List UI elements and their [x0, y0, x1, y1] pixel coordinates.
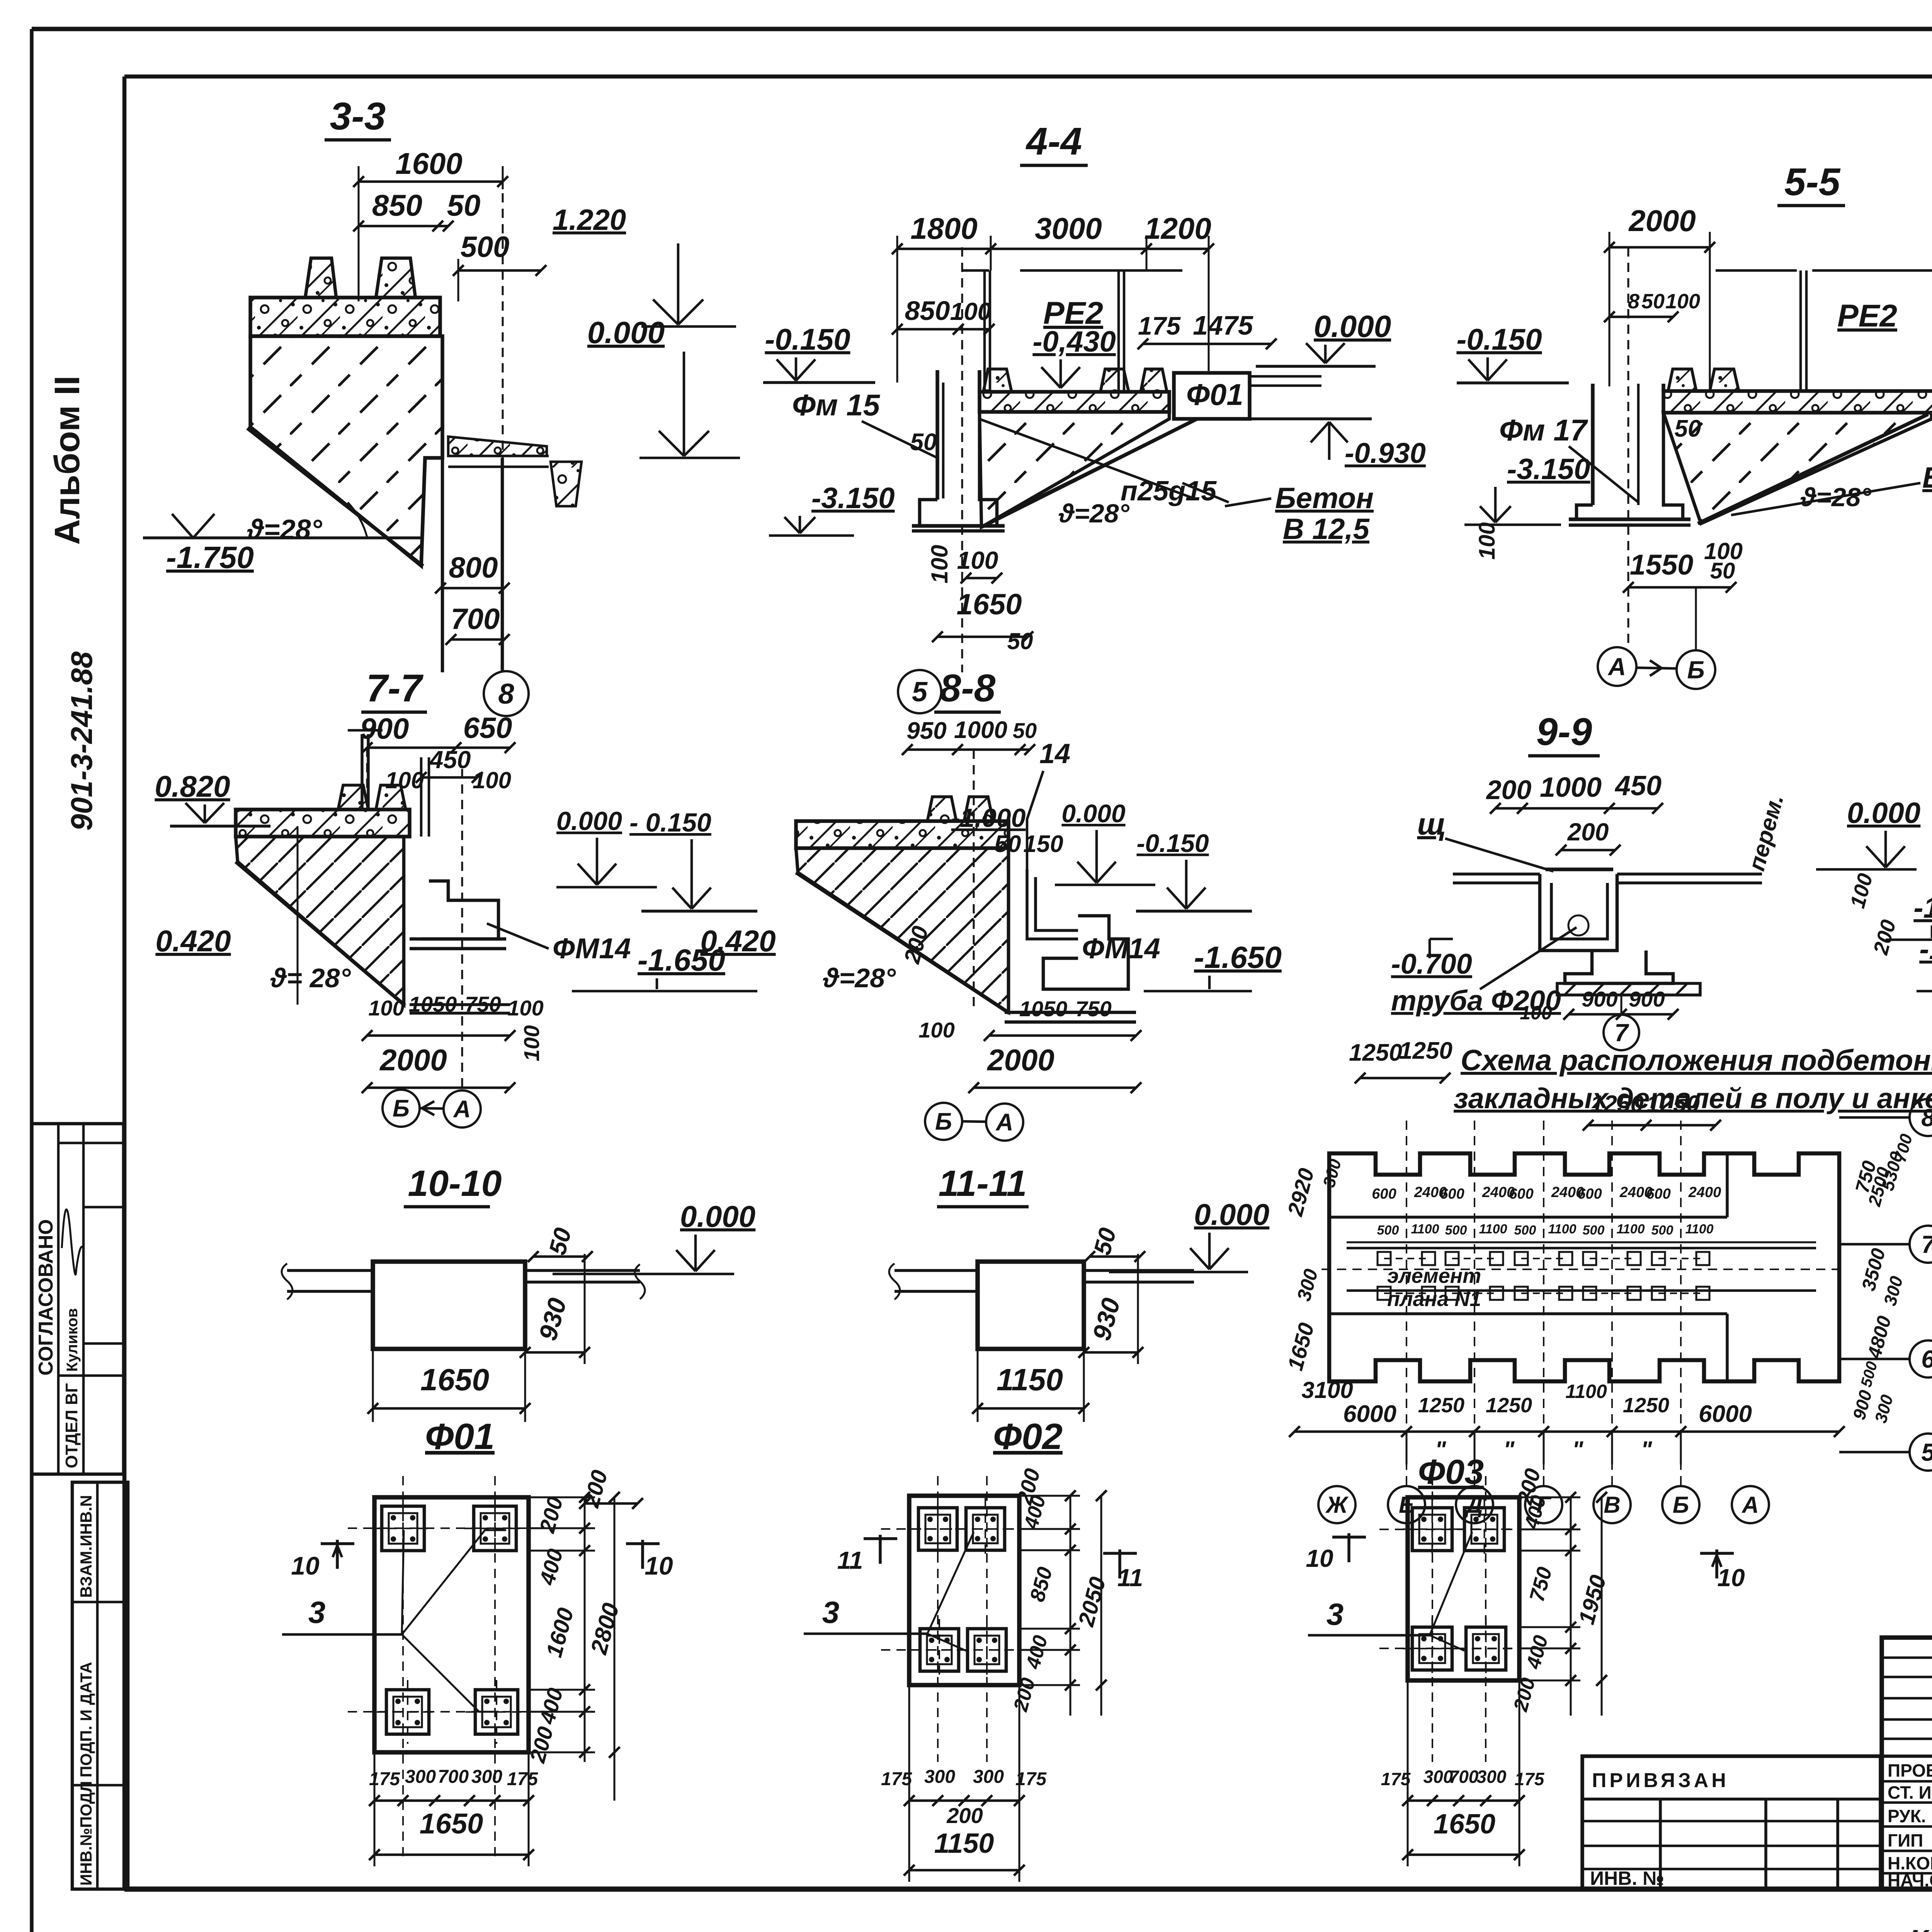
svg-text:200: 200 [1567, 818, 1609, 846]
svg-text:Ф03: Ф03 [1418, 1453, 1484, 1492]
svg-text:Ж: Ж [1325, 1492, 1349, 1518]
svg-text:600: 600 [1372, 1186, 1396, 1202]
svg-text:2400: 2400 [1688, 1184, 1721, 1201]
svg-text:ϑ=28°: ϑ=28° [823, 963, 896, 993]
svg-text:950: 950 [906, 718, 946, 744]
section 3-3 floor slab with curbs (concrete) [250, 298, 440, 336]
svg-text:10: 10 [1717, 1564, 1745, 1592]
svg-text:600: 600 [1509, 1186, 1533, 1202]
svg-text:150: 150 [1023, 831, 1063, 857]
svg-text:650: 650 [463, 712, 512, 745]
svg-text:50: 50 [1675, 415, 1701, 442]
svg-text:700: 700 [1449, 1767, 1479, 1787]
left margin table SOGLASOVANO [32, 1124, 124, 1474]
section 4-4 foundation mass hatched [980, 412, 1169, 527]
svg-text:ПРИВЯЗАН: ПРИВЯЗАН [1592, 1769, 1729, 1792]
svg-text:ИНВ.№ПОДЛ: ИНВ.№ПОДЛ [77, 1781, 95, 1886]
svg-text:2000: 2000 [986, 1043, 1054, 1077]
svg-text:Фм 17: Фм 17 [1499, 413, 1588, 447]
svg-text:Куликов: Куликов [64, 1308, 81, 1372]
left margin table inventory [72, 1482, 128, 1889]
foundation plan F01 outline [374, 1497, 529, 1752]
section 3-3 slope line [247, 428, 423, 566]
svg-text:Б: Б [393, 1095, 410, 1122]
svg-text:8: 8 [1628, 290, 1639, 313]
svg-text:1250: 1250 [1418, 1394, 1464, 1417]
svg-text:-0.700: -0.700 [1391, 948, 1472, 980]
svg-text:Ф02: Ф02 [993, 1416, 1063, 1457]
svg-text:0.000: 0.000 [1314, 309, 1391, 344]
svg-text:Альбом II: Альбом II [48, 376, 87, 545]
svg-text:175: 175 [1138, 311, 1181, 340]
svg-text:10: 10 [645, 1551, 673, 1580]
section 5-5 floor band concrete [1663, 391, 1932, 413]
svg-text:850: 850 [372, 188, 422, 222]
svg-text:900: 900 [1582, 987, 1617, 1011]
svg-text:1250: 1250 [1590, 1091, 1644, 1117]
svg-text:1100: 1100 [1479, 1222, 1507, 1236]
svg-text:0.000: 0.000 [587, 315, 665, 350]
section 5-5 left wall FM17 [1591, 384, 1595, 505]
svg-text:300: 300 [924, 1767, 955, 1787]
plan schema right axis circles [1839, 1116, 1909, 1119]
svg-text:100: 100 [1665, 290, 1700, 313]
svg-text:700: 700 [438, 1767, 469, 1787]
svg-text:СТ. ИНЖ.: СТ. ИНЖ. [1888, 1782, 1932, 1803]
svg-text:1000: 1000 [954, 717, 1007, 743]
F01 anchor squares [382, 1506, 424, 1551]
F03 anchor squares [1412, 1508, 1452, 1551]
svg-text:6000: 6000 [1699, 1401, 1752, 1427]
section 7-7 footing FM14 [421, 881, 498, 939]
section 3-3 foundation mass hatched [250, 336, 442, 566]
svg-text:Б: Б [1687, 656, 1704, 684]
section 8-8 footing FM14 [1043, 916, 1128, 989]
svg-text:1550: 1550 [1630, 549, 1694, 581]
svg-text:9-9: 9-9 [1536, 710, 1592, 753]
svg-text:1250: 1250 [1486, 1394, 1532, 1417]
svg-text:ϑ=28°: ϑ=28° [247, 514, 323, 545]
svg-text:175: 175 [881, 1769, 912, 1789]
svg-text:Фм 15: Фм 15 [792, 388, 881, 422]
svg-text:-0.150: -0.150 [1136, 829, 1209, 857]
plan schema anchor squares [1406, 1121, 1407, 1492]
svg-text:11-11: 11-11 [939, 1163, 1027, 1204]
section 3-3 axis [502, 193, 504, 670]
svg-text:6000: 6000 [1343, 1401, 1396, 1427]
svg-text:5-5: 5-5 [1784, 160, 1841, 204]
section 8-8 circles B A [925, 1103, 962, 1140]
svg-text:1200: 1200 [1144, 211, 1211, 245]
svg-text:300: 300 [405, 1767, 436, 1787]
title block signature table [1882, 1656, 1932, 1659]
svg-text:ϑ= 28°: ϑ= 28° [270, 963, 351, 993]
title block outline [1882, 1638, 1932, 1889]
svg-text:1.220: 1.220 [553, 204, 626, 236]
svg-text:500: 500 [1651, 1223, 1673, 1238]
svg-text:100: 100 [957, 546, 998, 574]
section 5-5 pipes [1799, 270, 1802, 391]
section 5-5 foundation mass hatched [1663, 413, 1932, 524]
svg-text:ВЗАМ.ИНВ.N: ВЗАМ.ИНВ.N [77, 1495, 95, 1598]
svg-text:элемент: элемент [1387, 1264, 1481, 1287]
svg-text:10: 10 [1306, 1544, 1333, 1572]
svg-text:8: 8 [1921, 1104, 1932, 1131]
svg-text:1600: 1600 [395, 146, 463, 180]
svg-text:В 12,5: В 12,5 [1283, 513, 1370, 546]
inner drawing frame [124, 75, 1932, 79]
section 8-8 axes [973, 750, 975, 1012]
section 10-10 drawing [373, 1262, 525, 1349]
svg-text:300: 300 [471, 1767, 502, 1787]
svg-text:450: 450 [1614, 770, 1662, 801]
svg-text:1000: 1000 [1540, 772, 1602, 803]
svg-text:3: 3 [308, 1595, 326, 1629]
privyazan block [1582, 1756, 1881, 1889]
svg-text:3100: 3100 [1301, 1377, 1353, 1403]
section 8-8 floor band concrete [796, 821, 1009, 848]
svg-text:50: 50 [447, 188, 481, 222]
section 5-5 axes circles A B [1628, 247, 1629, 649]
svg-text:3000: 3000 [1035, 211, 1102, 245]
svg-text:1650: 1650 [956, 588, 1022, 621]
svg-text:11: 11 [837, 1546, 863, 1574]
svg-text:ПРОВЕР.: ПРОВЕР. [1888, 1760, 1932, 1781]
svg-text:Ф01: Ф01 [1186, 378, 1243, 412]
svg-text:1250: 1250 [1349, 1039, 1402, 1066]
svg-text:800: 800 [449, 551, 498, 584]
plan schema bottom letter circles [1318, 1486, 1355, 1523]
svg-text:-0.150: -0.150 [765, 322, 850, 356]
svg-text:100: 100 [927, 545, 952, 583]
svg-text:4-4: 4-4 [1026, 120, 1082, 163]
section 3-3 level -1.750 line [143, 536, 421, 539]
svg-text:Копировал: Алешикова: Копировал: Алешикова [1909, 1923, 1932, 1932]
svg-text:РЕ2: РЕ2 [1837, 298, 1897, 333]
plan schema bottom dims [1294, 1430, 1839, 1433]
section 4-4 axis and circle 5 [961, 247, 963, 672]
svg-text:1650: 1650 [420, 1362, 489, 1397]
svg-text:1100: 1100 [1548, 1222, 1576, 1236]
svg-text:1050: 1050 [409, 992, 457, 1016]
svg-text:500: 500 [1377, 1223, 1399, 1238]
svg-text:1150: 1150 [997, 1362, 1063, 1397]
svg-text:0.000: 0.000 [1061, 799, 1125, 828]
svg-text:1100: 1100 [1685, 1222, 1713, 1236]
svg-text:100: 100 [507, 996, 543, 1020]
svg-text:7: 7 [1614, 1019, 1629, 1046]
section 3-3 right wall and floor [441, 336, 444, 672]
svg-text:900: 900 [1629, 987, 1665, 1011]
svg-text:А: А [1741, 1492, 1759, 1518]
svg-text:175: 175 [507, 1769, 538, 1789]
svg-text:0.420: 0.420 [700, 924, 776, 958]
svg-text:1800: 1800 [910, 211, 978, 245]
svg-text:ПОДП. И ДАТА: ПОДП. И ДАТА [77, 1662, 95, 1777]
svg-text:СОГЛАСОВАНО: СОГЛАСОВАНО [35, 1219, 57, 1376]
svg-text:100: 100 [950, 298, 992, 325]
svg-text:500: 500 [1583, 1223, 1605, 1238]
section 7-7 anchor rod [361, 734, 364, 810]
svg-text:1650: 1650 [1434, 1809, 1495, 1840]
svg-text:-1.750: -1.750 [166, 540, 254, 575]
svg-text:ИНВ. №: ИНВ. № [1590, 1867, 1664, 1889]
svg-text:850: 850 [905, 296, 950, 326]
F02 anchor squares [918, 1508, 957, 1550]
svg-text:8-8: 8-8 [940, 667, 996, 710]
svg-text:901-3-241.88: 901-3-241.88 [65, 651, 99, 831]
svg-text:175: 175 [1381, 1769, 1411, 1789]
section 7-7 circles B A [383, 1090, 420, 1127]
section 11-11 drawing [978, 1262, 1084, 1349]
svg-text:1250: 1250 [1646, 1091, 1700, 1117]
svg-text:50: 50 [910, 429, 937, 456]
section 9-9 circle 7 [1604, 1015, 1639, 1050]
svg-text:ФМ14: ФМ14 [553, 932, 631, 964]
svg-text:700: 700 [451, 603, 500, 636]
svg-text:Б: Б [1673, 1492, 1689, 1518]
svg-text:200: 200 [946, 1803, 983, 1828]
svg-text:0.000: 0.000 [1847, 797, 1920, 830]
svg-text:7-7: 7-7 [366, 667, 424, 710]
section 9-9 channel section [1453, 872, 1540, 876]
svg-text:3: 3 [822, 1595, 840, 1629]
svg-text:1475: 1475 [1193, 310, 1253, 340]
svg-text:6: 6 [1921, 1345, 1932, 1373]
svg-text:450: 450 [429, 746, 471, 774]
section 3-3 axis circle 8 [484, 671, 529, 716]
svg-text:Бетон: Бетон [1275, 482, 1374, 515]
svg-text:-0.150: -0.150 [1456, 322, 1542, 356]
svg-text:300: 300 [973, 1767, 1004, 1787]
svg-text:": " [1641, 1437, 1653, 1463]
svg-text:0.420: 0.420 [155, 924, 231, 958]
svg-text:100: 100 [1475, 522, 1500, 560]
svg-text:ОТДЕЛ ВГ: ОТДЕЛ ВГ [62, 1383, 81, 1468]
section 4-4 F01 block [1174, 373, 1250, 419]
svg-text:3: 3 [1327, 1597, 1344, 1631]
svg-text:РУК. ГР.: РУК. ГР. [1888, 1806, 1932, 1826]
section 4-4 line under block [1198, 417, 1372, 420]
svg-text:щ: щ [1417, 807, 1446, 841]
svg-text:600: 600 [1646, 1186, 1670, 1202]
plan schema horizontal axis [1321, 1269, 1847, 1270]
svg-text:600: 600 [1577, 1186, 1602, 1202]
svg-text:0.820: 0.820 [155, 769, 230, 803]
svg-text:2000: 2000 [379, 1043, 447, 1077]
svg-text:50: 50 [1710, 558, 1735, 583]
svg-text:1100: 1100 [1616, 1222, 1645, 1236]
svg-text:-1.650: -1.650 [1194, 940, 1282, 975]
svg-text:300: 300 [1477, 1767, 1507, 1787]
section 8-8 anchor channel piece 14 [1027, 869, 1078, 939]
section 7-7 bottom slab [410, 1003, 510, 1006]
svg-text:5: 5 [1921, 1438, 1932, 1466]
svg-text:8: 8 [498, 678, 514, 710]
svg-text:750: 750 [465, 992, 501, 1016]
svg-text:Б: Б [935, 1109, 952, 1135]
svg-text:500: 500 [1514, 1223, 1536, 1238]
svg-text:50: 50 [1007, 628, 1033, 654]
section 7-7 axes [366, 748, 368, 810]
svg-text:0.000: 0.000 [1194, 1197, 1269, 1231]
svg-text:1050: 1050 [1019, 997, 1068, 1021]
svg-text:Схема расположения подбетонки: Схема расположения подбетонки [1461, 1044, 1932, 1077]
section 4-4 floor band concrete [980, 392, 1169, 412]
svg-text:Бетон В 12,5: Бетон В 12,5 [1922, 461, 1932, 494]
svg-text:100: 100 [918, 1018, 954, 1042]
svg-text:": " [1572, 1437, 1584, 1463]
svg-text:10-10: 10-10 [408, 1163, 502, 1204]
svg-text:0.000: 0.000 [680, 1199, 755, 1233]
F02 axes [937, 1476, 939, 1762]
F03 axes [1432, 1476, 1433, 1762]
svg-text:500: 500 [1445, 1223, 1467, 1238]
svg-text:А: А [453, 1096, 471, 1123]
svg-text:100: 100 [368, 996, 404, 1020]
section 7-7 floor band concrete [236, 810, 410, 837]
plan schema inner lines [1329, 1216, 1727, 1219]
svg-text:ϑ=28°: ϑ=28° [1058, 499, 1130, 528]
plan schema main outline castellated [1329, 1153, 1839, 1381]
section 9-9 foundation below [1565, 951, 1673, 983]
svg-text:-1.000: -1.000 [1913, 891, 1932, 924]
svg-text:А: А [1607, 653, 1626, 680]
svg-text:10: 10 [291, 1551, 320, 1580]
section 8-8 foundation mass hatched [796, 848, 1009, 1012]
svg-text:А: А [995, 1109, 1014, 1136]
svg-text:1100: 1100 [1565, 1381, 1607, 1402]
svg-text:600: 600 [1440, 1186, 1464, 1202]
svg-text:50: 50 [1013, 718, 1037, 743]
svg-text:-1.650: -1.650 [1919, 933, 1932, 966]
svg-text:плана N1: плана N1 [1387, 1287, 1481, 1311]
svg-text:1650: 1650 [420, 1808, 483, 1840]
svg-text:1150: 1150 [934, 1828, 994, 1859]
svg-text:750: 750 [1075, 997, 1111, 1021]
svg-text:- 0.150: - 0.150 [629, 808, 711, 837]
svg-text:5: 5 [912, 677, 928, 707]
svg-text:7: 7 [1921, 1230, 1932, 1258]
svg-text:2000: 2000 [1628, 204, 1696, 238]
svg-text:ФМ14: ФМ14 [1082, 932, 1160, 964]
svg-text:3-3: 3-3 [330, 95, 386, 138]
svg-text:ГИП: ГИП [1888, 1830, 1923, 1850]
svg-text:В: В [1604, 1492, 1620, 1518]
F01 axes dashed [402, 1476, 404, 1862]
foundation plan F02 outline [909, 1496, 1019, 1685]
svg-text:1100: 1100 [1411, 1222, 1439, 1236]
svg-text:14: 14 [1039, 738, 1070, 769]
svg-text:НАЧ.ОТД: НАЧ.ОТД [1888, 1870, 1932, 1890]
svg-text:-3.150: -3.150 [811, 482, 895, 515]
svg-text:50: 50 [1641, 290, 1665, 313]
foundation plan F03 outline [1408, 1497, 1519, 1680]
svg-text:0.000: 0.000 [556, 806, 622, 836]
svg-text:1250: 1250 [1399, 1037, 1452, 1064]
section 4-4 left wall FM15 [935, 370, 939, 500]
svg-text:": " [1503, 1437, 1515, 1463]
svg-text:Ф01: Ф01 [425, 1416, 495, 1457]
svg-text:ϑ=28°: ϑ=28° [1800, 483, 1872, 512]
svg-text:100: 100 [519, 1025, 544, 1061]
section 4-4 break lines and pipes [962, 269, 989, 272]
svg-text:-0,430: -0,430 [1032, 325, 1116, 358]
svg-text:-3.150: -3.150 [1507, 453, 1590, 486]
svg-text:100: 100 [1520, 1002, 1552, 1024]
section 7-7 foundation mass hatched [236, 837, 404, 1005]
svg-text:100: 100 [473, 767, 511, 793]
sheet outer border [32, 27, 1932, 31]
svg-text:200: 200 [1486, 775, 1532, 805]
svg-text:-0.930: -0.930 [1345, 437, 1426, 469]
svg-text:1250: 1250 [1623, 1394, 1669, 1417]
